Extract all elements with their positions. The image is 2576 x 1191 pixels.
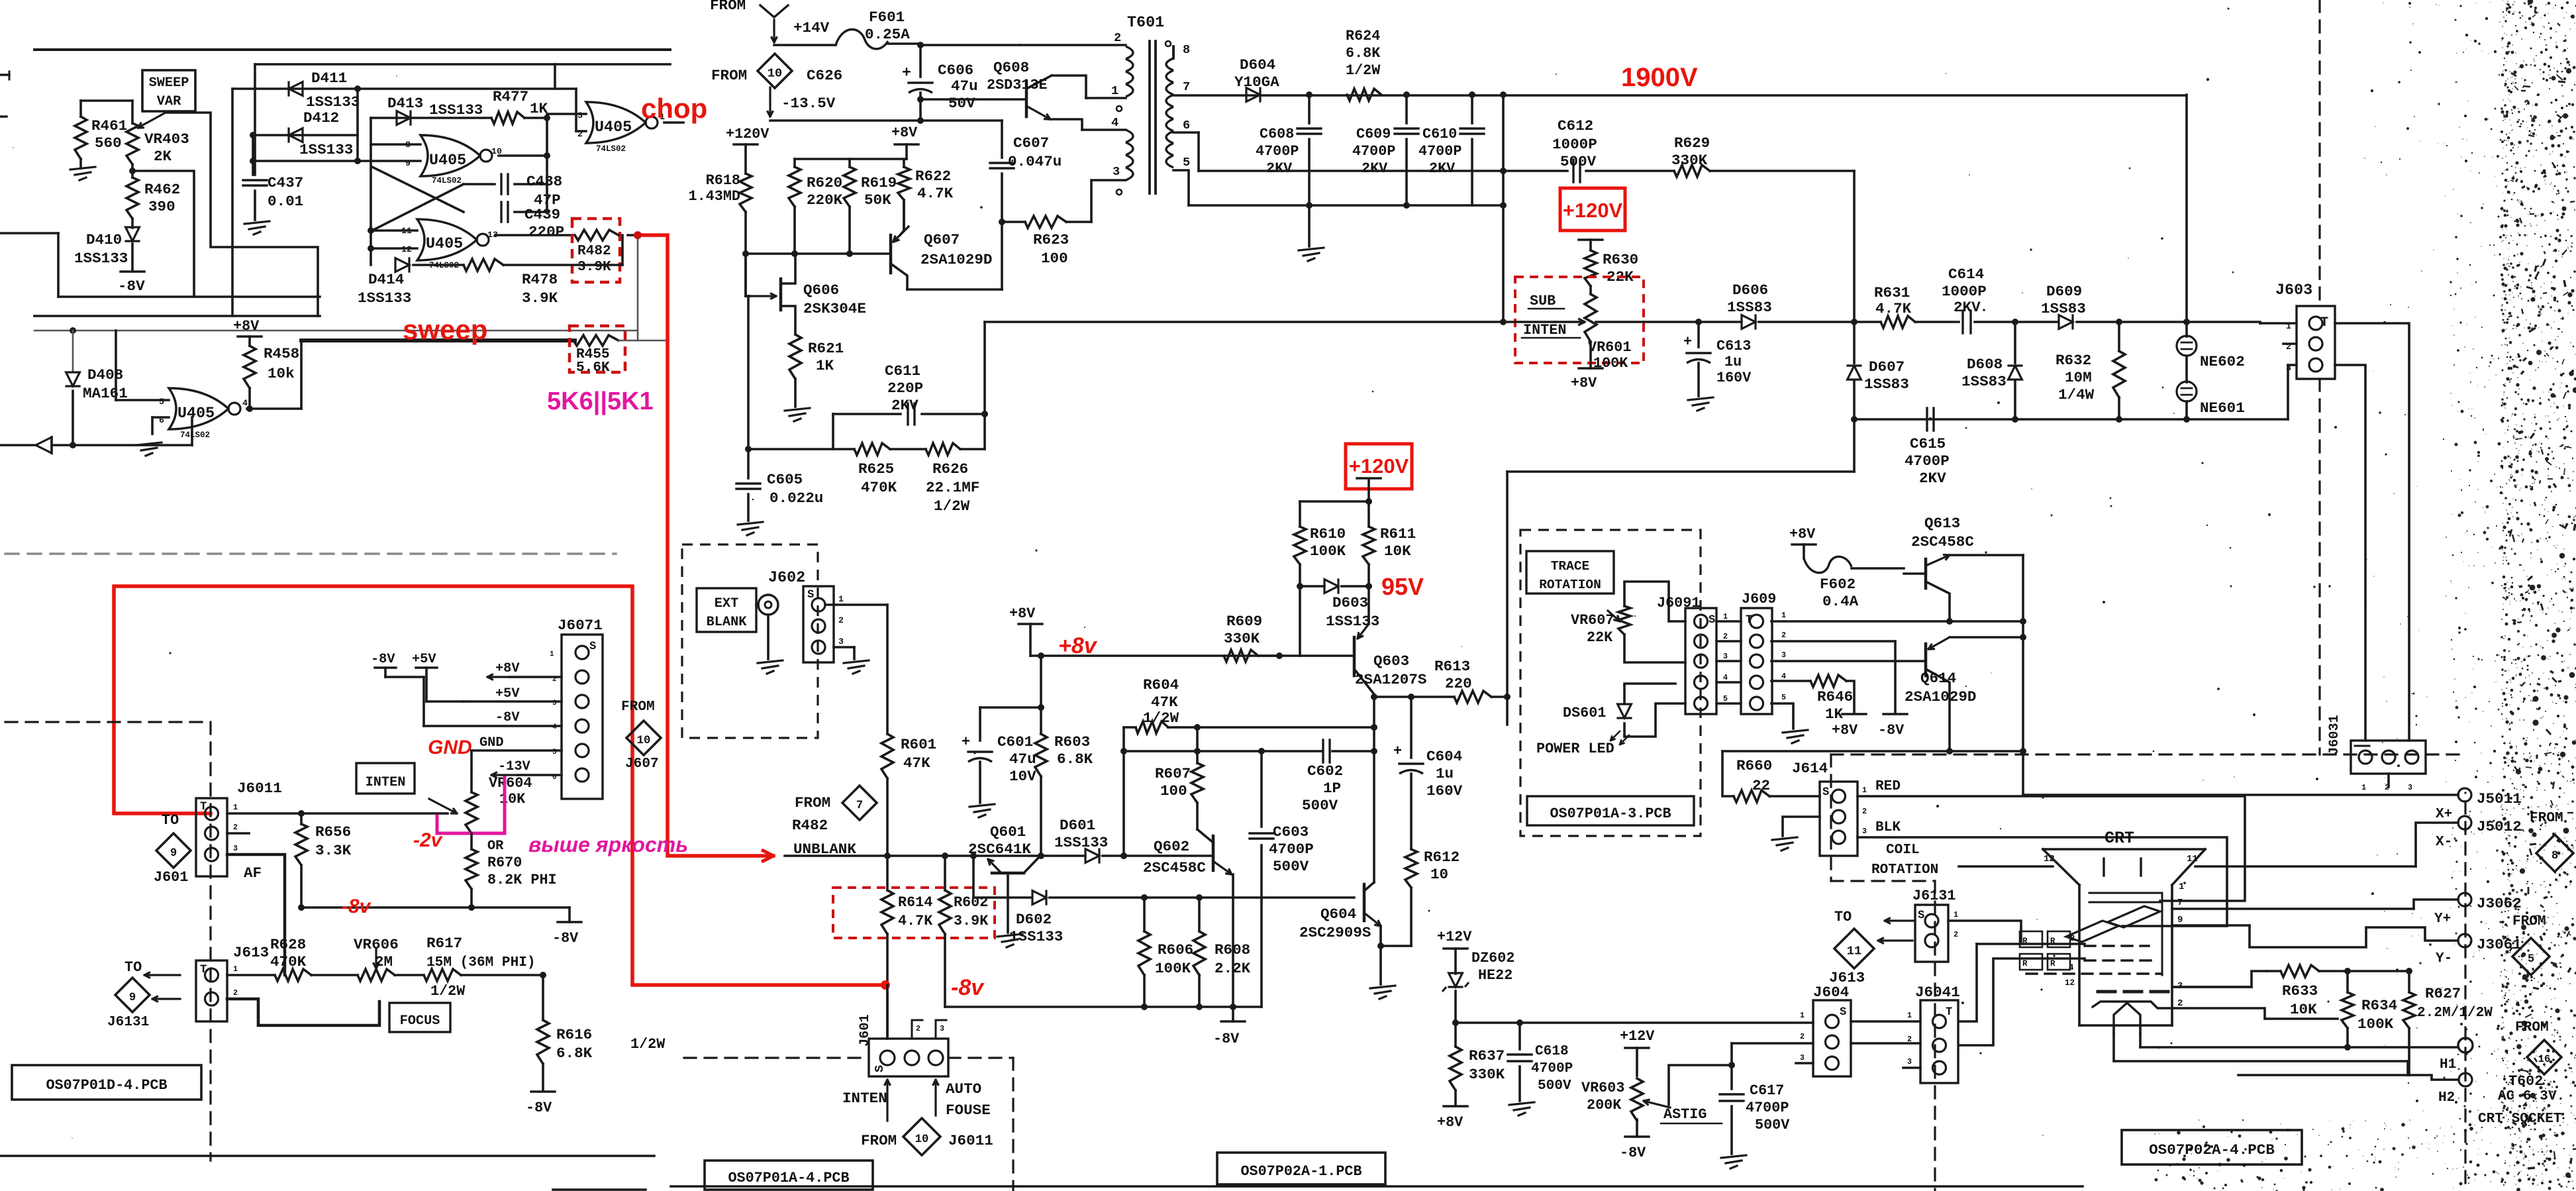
capacitor C612 (1552, 117, 1597, 182)
svg-text:+8V: +8V (1009, 605, 1036, 622)
neon lamp NE602 (2177, 322, 2245, 370)
resistor R631 (1874, 284, 1959, 328)
wire J601 pin1 feed (886, 985, 889, 1039)
svg-text:R608: R608 (1214, 941, 1250, 958)
magenta wire -2v (437, 776, 505, 833)
wire unblank feed vertical (981, 322, 1503, 449)
svg-text:J3061: J3061 (2477, 936, 2522, 953)
svg-text:J5011: J5011 (2477, 790, 2522, 807)
resistor R626 (926, 443, 985, 515)
dashed box TRACE ROTATION (1520, 530, 1701, 836)
svg-text:2: 2 (1723, 632, 1728, 641)
svg-text:ROTATION: ROTATION (1539, 578, 1601, 592)
svg-text:22K: 22K (1587, 629, 1613, 646)
svg-text:C606: C606 (938, 62, 973, 79)
svg-text:J6131: J6131 (107, 1014, 149, 1030)
label ASTIG (1661, 1106, 1722, 1123)
svg-text:D607: D607 (1869, 358, 1905, 376)
svg-text:COIL: COIL (1886, 842, 1920, 858)
svg-text:F601: F601 (869, 9, 905, 26)
svg-text:74LS02: 74LS02 (180, 431, 210, 440)
connector J609 (1741, 591, 1786, 714)
svg-text:7: 7 (1183, 79, 1190, 94)
label 5K6||5K1 (magenta) (547, 388, 654, 415)
connector J613b (196, 944, 269, 1021)
wire J613 pin2 path (227, 999, 379, 1025)
svg-text:-8V: -8V (1213, 1031, 1240, 1047)
svg-text:12: 12 (2065, 978, 2075, 988)
fuse F602 (1804, 556, 1904, 610)
svg-text:-8V: -8V (1878, 722, 1905, 739)
svg-text:C605: C605 (767, 471, 803, 488)
wire J614 pin2 ground (1772, 817, 1820, 851)
svg-text:VR601: VR601 (1588, 339, 1631, 356)
svg-text:S: S (1709, 614, 1715, 627)
svg-text:U405: U405 (177, 405, 215, 423)
capacitor C618 (1508, 1023, 1573, 1101)
svg-text:Q601: Q601 (990, 823, 1026, 841)
resistor R455 (red dashed box) (570, 326, 625, 376)
wire gate3 inputs (368, 118, 417, 265)
svg-text:D414: D414 (368, 271, 404, 288)
wire VR603 wiper (1669, 1062, 1735, 1105)
resistor R660 (1722, 751, 1820, 802)
svg-text:47u: 47u (1009, 751, 1036, 768)
label -8v red (z) (951, 975, 985, 1000)
svg-text:500V: 500V (1302, 797, 1338, 814)
svg-text:FROM: FROM (861, 1132, 897, 1149)
label sweep (red) (403, 314, 487, 345)
connector J614 (1792, 760, 1867, 856)
svg-text:1SS133: 1SS133 (1054, 834, 1108, 851)
svg-text:S: S (807, 589, 814, 601)
svg-text:D603: D603 (1332, 594, 1368, 611)
svg-text:+8V: +8V (233, 318, 260, 335)
svg-text:5: 5 (2528, 953, 2534, 966)
svg-text:+8V: +8V (1832, 722, 1858, 739)
connector J6041 (1907, 984, 1960, 1083)
resistor R616b (537, 975, 666, 1090)
svg-text:160V: 160V (1716, 370, 1752, 386)
svg-text:22.1MF: 22.1MF (926, 479, 979, 496)
label R660 value (1752, 777, 1770, 794)
wire +8V rail (795, 158, 907, 160)
svg-text:S: S (589, 641, 596, 653)
resistor R656 (295, 813, 352, 911)
svg-text:Y10GA: Y10GA (1234, 74, 1279, 91)
resistor R602 (939, 856, 989, 1007)
wire gate2 inputs (250, 135, 421, 175)
svg-text:+8V: +8V (1789, 526, 1816, 543)
svg-text:T: T (200, 801, 207, 813)
crt grid thick dash (2098, 981, 2183, 992)
svg-text:2KV: 2KV (1919, 470, 1946, 487)
label R604 power (1143, 709, 1179, 727)
svg-text:R632: R632 (2056, 352, 2091, 369)
svg-text:2: 2 (838, 615, 844, 625)
wire 1900V down leg (2183, 95, 2190, 325)
wire q output column (1371, 697, 1377, 882)
svg-text:1000P: 1000P (1552, 136, 1597, 153)
svg-text:VR403: VR403 (144, 130, 189, 148)
box TRACE ROTATION label (1526, 551, 1614, 594)
resistor R630 (1585, 250, 1638, 286)
svg-text:C607: C607 (1013, 134, 1049, 152)
wire crt pin row2 (2089, 902, 2162, 904)
svg-text:R482: R482 (792, 817, 828, 834)
resistor R622 (898, 159, 954, 229)
svg-text:2SC2909S: 2SC2909S (1299, 924, 1371, 941)
power +8V under R637 (1437, 1106, 1467, 1131)
wire J6071 pin2 +8V (487, 661, 562, 680)
svg-text:3.9K: 3.9K (522, 289, 558, 307)
connector J6011 (196, 780, 282, 876)
svg-text:2SD313E: 2SD313E (987, 77, 1048, 93)
svg-text:1/4W: 1/4W (2058, 386, 2095, 403)
svg-text:R621: R621 (808, 340, 844, 357)
svg-text:R609: R609 (1226, 613, 1262, 630)
svg-text:R461: R461 (91, 117, 127, 134)
svg-text:FROM: FROM (2515, 1019, 2549, 1035)
from-diamond 10 (-13.5V) (711, 54, 842, 117)
connector J603 (2187, 282, 2335, 419)
resistor R625 (854, 443, 926, 496)
box OS07P02A-1.PCB (1217, 1153, 1385, 1184)
svg-text:+: + (1683, 334, 1692, 350)
wire J602 pin1 (825, 603, 887, 606)
svg-text:S: S (1918, 909, 1924, 922)
wire J614 RED (1858, 778, 2245, 901)
svg-text:J5012: J5012 (2477, 818, 2522, 835)
svg-text:9: 9 (170, 847, 177, 860)
capacitor C602 (1120, 740, 1377, 814)
svg-text:1SS133: 1SS133 (299, 141, 353, 158)
label CRT (2105, 829, 2134, 848)
wire Z row main (1644, 319, 1742, 325)
svg-text:FROM: FROM (621, 699, 655, 715)
svg-text:1: 1 (1723, 612, 1728, 621)
svg-text:S: S (1822, 786, 1829, 799)
svg-text:22: 22 (1752, 777, 1770, 794)
tiny resistor box r3 (2020, 954, 2042, 970)
svg-text:D601: D601 (1060, 817, 1095, 834)
svg-text:INTEN: INTEN (1523, 322, 1566, 338)
connector J6091 (1657, 595, 1728, 714)
svg-text:3: 3 (2408, 783, 2412, 792)
svg-text:R462: R462 (144, 181, 180, 198)
svg-text:100K: 100K (2357, 1015, 2394, 1033)
svg-text:VR603: VR603 (1581, 1080, 1624, 1096)
svg-text:470K: 470K (861, 479, 897, 496)
wire J603 pin1 out (2335, 323, 2409, 741)
wire X+ line (2023, 788, 2522, 822)
wire crt pin11 line (2187, 854, 2416, 866)
svg-text:FROM: FROM (711, 67, 747, 84)
crt funnel (2043, 849, 2205, 1025)
label +8v (red) (1058, 633, 1098, 658)
svg-text:NE601: NE601 (2200, 399, 2245, 417)
svg-text:1: 1 (233, 803, 238, 812)
svg-text:R477: R477 (493, 88, 528, 105)
svg-text:500V: 500V (1755, 1117, 1790, 1133)
svg-text:C618: C618 (1535, 1043, 1569, 1059)
label AC 6.3V (2498, 1088, 2565, 1104)
svg-text:1u: 1u (1436, 765, 1454, 782)
svg-text:4: 4 (242, 398, 248, 408)
svg-text:J609: J609 (1742, 591, 1776, 607)
fuse F601 (774, 9, 920, 49)
svg-text:-2v: -2v (413, 829, 444, 851)
wire crt pin7 (Y+) (2172, 898, 2414, 909)
wire VR403 wiper (166, 113, 318, 295)
svg-text:R634: R634 (2361, 997, 2397, 1014)
svg-text:J602: J602 (768, 570, 805, 587)
capacitor C617 (1720, 1043, 1790, 1154)
svg-text:R622: R622 (915, 168, 951, 185)
potentiometer VR601 (1555, 286, 1631, 372)
svg-text:F602: F602 (1820, 576, 1856, 593)
svg-text:SUB: SUB (1530, 293, 1556, 309)
svg-text:8.2K PHI: 8.2K PHI (487, 872, 557, 888)
resistor R601 (881, 605, 936, 856)
ground under gate4 (136, 442, 162, 456)
svg-text:6.8K: 6.8K (1057, 751, 1093, 768)
connector jack EXT BLANK (756, 595, 778, 615)
svg-text:Q607: Q607 (924, 231, 960, 248)
dashed boundary right vertical (2318, 0, 2320, 754)
svg-text:R624: R624 (1346, 28, 1380, 44)
svg-text:500V: 500V (1538, 1078, 1571, 1094)
svg-text:D604: D604 (1240, 56, 1275, 74)
svg-text:+8V: +8V (495, 661, 520, 676)
diode D606 (1727, 282, 1772, 329)
svg-text:-8V: -8V (371, 652, 395, 667)
svg-text:-8V: -8V (526, 1100, 552, 1116)
svg-text:ASTIG: ASTIG (1663, 1106, 1707, 1123)
svg-text:1: 1 (1781, 611, 1786, 620)
svg-text:7: 7 (2177, 898, 2183, 908)
svg-text:2KV: 2KV (1954, 299, 1981, 316)
power +120V red box (SUB INTEN) (1560, 188, 1625, 250)
ground J609 pin5 (1783, 730, 1808, 743)
resistor R621 (789, 335, 844, 407)
svg-text:R629: R629 (1674, 134, 1710, 152)
label R617 w (0, 0, 1, 1)
svg-text:+14V: +14V (793, 19, 830, 36)
wire J602 pin3 ground (834, 647, 869, 674)
svg-text:50V: 50V (948, 95, 975, 112)
label VR606 (354, 936, 399, 970)
svg-text:160V: 160V (1426, 782, 1463, 800)
svg-text:AF: AF (244, 864, 262, 882)
box SWEEP VAR (142, 70, 195, 111)
wire crt pin9 (Y-) (2172, 915, 2250, 925)
crt deflection plate B (2066, 921, 2118, 942)
label 95V (red) (1381, 573, 1424, 600)
dashed J601 left (684, 1057, 869, 1059)
from-diamond 7 (R482 UNBLANK) (792, 786, 877, 858)
svg-text:R607: R607 (1155, 765, 1191, 782)
svg-text:2SC458C: 2SC458C (1143, 859, 1206, 876)
arrow AUTO FOUSE (933, 1080, 991, 1119)
wire crt left feeds (1959, 944, 2085, 1045)
svg-text:0.022u: 0.022u (769, 490, 823, 507)
wire C605 column up (747, 296, 750, 449)
svg-text:R623: R623 (1033, 231, 1069, 248)
svg-text:DZ602: DZ602 (1471, 950, 1514, 966)
wire J609 pin2 row (1771, 640, 1895, 643)
wire HV bottom row (1854, 322, 2288, 419)
capacitor C603 (1250, 751, 1314, 1007)
svg-text:+120V: +120V (1349, 454, 1409, 478)
svg-text:1P: 1P (1323, 780, 1341, 797)
wire -8v row left (301, 906, 570, 909)
svg-text:3.9K: 3.9K (954, 913, 989, 929)
svg-text:4700P: 4700P (1746, 1100, 1789, 1116)
svg-text:Y-: Y- (2436, 951, 2452, 966)
svg-text:Q604: Q604 (1320, 906, 1356, 923)
potentiometer VR606 (356, 947, 424, 981)
ground under R461 (70, 159, 95, 180)
wire bottom border left (0, 1155, 654, 1157)
svg-text:Q613: Q613 (1924, 515, 1960, 532)
svg-text:ROTATION: ROTATION (1871, 862, 1938, 878)
potentiometer VR604 (429, 768, 532, 833)
svg-text:1SS83: 1SS83 (1727, 299, 1772, 316)
transformer T601 core (1150, 41, 1156, 193)
svg-text:AC 6.3V.: AC 6.3V. (2498, 1088, 2565, 1104)
resistor R614 (881, 856, 933, 1039)
diode arrow bottom-left (0, 437, 52, 453)
from-diamond 16 (2515, 1019, 2561, 1074)
wire J609 pin1 row (1771, 618, 2026, 625)
wire C610 HV column (1500, 95, 1507, 322)
label SUB INTEN (1522, 293, 1580, 338)
svg-text:4700P: 4700P (1418, 143, 1461, 160)
power +8V z-amp (1009, 605, 1042, 656)
transformer T601 primary (1020, 15, 1164, 195)
wire H2 line (2238, 1074, 2409, 1076)
svg-text:+5V: +5V (412, 652, 436, 667)
resistor R458 (233, 318, 299, 412)
svg-text:5.6K: 5.6K (576, 360, 610, 376)
svg-text:FROM: FROM (2512, 913, 2546, 929)
svg-text:6: 6 (1183, 118, 1190, 132)
svg-text:R627: R627 (2425, 985, 2461, 1002)
svg-text:R637: R637 (1469, 1047, 1505, 1064)
wire -8v rail (z) (945, 1004, 1262, 1010)
red dashed box R614 R602 (833, 888, 995, 938)
svg-text:C615: C615 (1910, 435, 1946, 452)
svg-text:16: 16 (2538, 1053, 2551, 1065)
diode D608 (1961, 322, 2022, 423)
svg-text:R625: R625 (858, 460, 894, 478)
zener DZ602 (1442, 950, 1514, 1026)
diode D602 (970, 853, 1354, 945)
diode D603 (1300, 580, 1379, 630)
nor-gate U405 (pins 8,9,10) (405, 135, 502, 185)
wire J6131r arrows (1878, 918, 1915, 944)
svg-text:OS07P02A-4.PCB: OS07P02A-4.PCB (2149, 1141, 2275, 1159)
resistor R482 (red dashed box) (572, 219, 620, 282)
svg-text:Q603: Q603 (1373, 652, 1409, 670)
power -8V under rail (1213, 1007, 1245, 1047)
svg-text:3: 3 (233, 844, 238, 853)
wire top border line (0, 50, 670, 117)
svg-text:1K: 1K (816, 357, 834, 374)
connector J6131r (1912, 888, 1958, 962)
dashed boundary left vertical x2765 (1830, 754, 1832, 881)
svg-text:R626: R626 (932, 460, 968, 478)
dashed gray top (5, 552, 616, 554)
label COIL ROTATION (1871, 842, 1938, 878)
svg-text:1: 1 (1862, 786, 1867, 795)
svg-text:2.2K: 2.2K (1214, 960, 1251, 977)
svg-text:9: 9 (2177, 915, 2183, 925)
svg-text:J613: J613 (233, 944, 269, 961)
resistor R611 (1363, 525, 1416, 590)
svg-text:R618: R618 (706, 172, 740, 189)
svg-text:1SS133: 1SS133 (74, 250, 128, 267)
label GND red (428, 737, 472, 758)
capacitor C614 (1942, 266, 2018, 333)
svg-text:1: 1 (1800, 1011, 1805, 1020)
transistor Q603 (1354, 586, 1426, 700)
svg-text:2.2M/1/2W: 2.2M/1/2W (2417, 1005, 2493, 1021)
from-diamond 10 J6011 (861, 1118, 993, 1155)
wire D411 row (232, 85, 576, 316)
transformer T601 secondary (1165, 41, 1190, 170)
svg-text:4: 4 (1781, 672, 1786, 681)
svg-text:J6071: J6071 (558, 617, 603, 634)
wire J6071 pin5 GND (471, 735, 562, 751)
svg-text:330K: 330K (1671, 152, 1708, 169)
wire J6071 pin3 +5V (464, 686, 562, 701)
transistor Q607 (891, 200, 992, 289)
from-diamond 10 J607 (621, 699, 661, 772)
crt heater (2114, 1003, 2140, 1025)
svg-text:47u: 47u (951, 78, 978, 95)
power +12V astig (1620, 1028, 1655, 1076)
wire chop gate inputs (547, 89, 586, 131)
svg-text:TRACE: TRACE (1551, 559, 1590, 574)
svg-text:Q614: Q614 (1920, 670, 1956, 687)
svg-text:3: 3 (1862, 827, 1867, 836)
svg-text:500V: 500V (1560, 153, 1597, 170)
wire J6131r pin1 out (1948, 921, 2021, 944)
svg-text:220P: 220P (887, 380, 923, 397)
red dashed box SUB INTEN (1515, 277, 1644, 363)
wire left stub y352 (0, 233, 58, 297)
wire sub-inten wiper row (1500, 319, 1644, 325)
svg-text:1/2W: 1/2W (934, 497, 970, 515)
from-diamond top (+14V) (710, 0, 830, 42)
svg-text:R620: R620 (807, 174, 842, 191)
crt getter plates (2104, 858, 2141, 876)
svg-text:Q602: Q602 (1154, 838, 1189, 855)
svg-text:1: 1 (1954, 910, 1958, 919)
box EXT BLANK (697, 588, 756, 632)
transistor Q604 (1299, 882, 1381, 941)
svg-text:500V: 500V (1273, 858, 1309, 875)
wire +120V stem (z) (1300, 478, 1381, 527)
svg-text:10: 10 (768, 66, 782, 81)
svg-text:Q608: Q608 (993, 59, 1029, 76)
svg-text:-8V: -8V (495, 710, 520, 725)
svg-text:X-: X- (2436, 834, 2452, 850)
svg-text:2: 2 (1781, 631, 1786, 640)
svg-text:2KV: 2KV (1266, 160, 1293, 177)
